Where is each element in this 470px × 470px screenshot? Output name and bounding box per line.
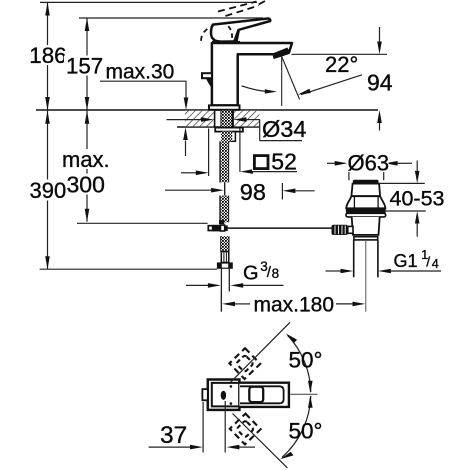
deck hatching right of faucet <box>240 111 260 127</box>
drain pop-up lever knob <box>332 225 348 235</box>
svg-text:50°: 50° <box>289 419 323 444</box>
svg-text:94: 94 <box>367 70 393 96</box>
svg-text:4: 4 <box>432 257 439 271</box>
backnut washer bar <box>215 128 243 132</box>
counter deck bottom line <box>177 126 259 128</box>
svg-text:max.180: max.180 <box>254 293 335 316</box>
drain flange black band <box>346 208 386 213</box>
dimension G3/8 arrows <box>186 284 209 286</box>
dimension 390 vertical line <box>47 111 49 269</box>
drain flange lip <box>346 213 386 217</box>
svg-text:50°: 50° <box>289 348 323 373</box>
wire: extension line handle tip (157 ref) <box>79 17 263 19</box>
counter deck top line <box>36 109 378 111</box>
svg-text:/: / <box>426 253 430 269</box>
drain collar <box>354 237 378 240</box>
22 degree label leader with arrow <box>301 75 362 95</box>
supply hose lower section <box>221 196 228 223</box>
shank threaded section below nut <box>221 132 232 142</box>
label diam63 <box>347 155 389 172</box>
pop-up rod guide <box>230 132 236 142</box>
dashed handle rotated down position <box>230 414 261 445</box>
faucet base plate <box>209 105 240 109</box>
drain bell flare <box>346 196 385 208</box>
dimension G1 1/4 arrows <box>326 270 342 272</box>
dimension 94 <box>379 27 381 42</box>
svg-text:Ø34: Ø34 <box>262 116 306 142</box>
svg-text:300: 300 <box>67 171 105 197</box>
dimension max.300 vertical line <box>86 111 88 222</box>
label diam34 <box>261 119 303 140</box>
handle lever front view <box>211 19 270 42</box>
dimension 98 <box>165 189 212 191</box>
handle base contact line <box>212 41 240 44</box>
plan view: lever pad <box>249 387 263 403</box>
plan view: screw dots <box>230 385 233 388</box>
dashed handle rotated up position <box>229 348 260 379</box>
dimension max.180 <box>220 291 222 312</box>
dimension 157 vertical line <box>86 18 88 110</box>
G3/8 thread lines <box>220 269 222 312</box>
dimension arrows diam34 <box>167 119 203 121</box>
drain cap body <box>351 184 380 197</box>
drain tailpipe G1 1/4 <box>353 240 355 277</box>
upper 50 degree arc <box>288 335 311 392</box>
svg-text:37: 37 <box>160 422 187 449</box>
svg-text:8: 8 <box>272 266 280 281</box>
hole edge lines in deck <box>214 111 216 127</box>
dimension diam63 <box>327 162 335 164</box>
lower 50 degree arc <box>282 396 311 457</box>
dimension 40-53 <box>416 161 418 172</box>
svg-text:max.: max. <box>62 147 110 172</box>
plan view: centerline stub <box>290 393 317 395</box>
label square52 <box>252 153 296 171</box>
dashed handle swing arc left <box>201 26 214 41</box>
plan view: handle lever <box>239 383 289 407</box>
plan view: base square <box>208 380 240 410</box>
pop-up rod visible in hose break <box>224 182 226 195</box>
dimension square52 extension lines <box>208 129 210 177</box>
plan view: lever face inset <box>240 386 284 403</box>
svg-text:G1: G1 <box>394 251 418 271</box>
supply hose upper section <box>221 141 228 182</box>
plan view: body inner lines <box>212 383 240 407</box>
svg-text:G: G <box>243 263 259 285</box>
hose threaded end section <box>221 236 229 251</box>
aerator at spout tip <box>273 48 290 58</box>
wire: 390 bottom reference line <box>40 268 218 270</box>
G3/8 connection nut <box>217 262 233 268</box>
svg-text:98: 98 <box>240 179 266 205</box>
label 157 <box>64 56 106 76</box>
dashed handle swing arc inside knob <box>228 26 232 38</box>
pop-up rod wedge <box>206 78 212 88</box>
upper 50 degree radial line <box>231 322 291 382</box>
deck hatching slivers beside hole <box>209 111 215 127</box>
svg-text:max.30: max.30 <box>106 61 175 84</box>
svg-text:390: 390 <box>30 178 67 203</box>
pop-up horizontal rod to drain <box>224 227 332 229</box>
wire: max.300 bottom reference line <box>77 222 208 224</box>
deck hatching left of faucet <box>185 111 209 127</box>
hose end fitting <box>221 252 229 263</box>
dimension 37 <box>202 402 204 453</box>
dashed raised handle position <box>218 2 257 12</box>
pop-up rod connector block <box>213 225 220 232</box>
drain assembly: stopper cap <box>353 180 379 184</box>
svg-text:Ø63: Ø63 <box>348 150 390 175</box>
svg-text:22°: 22° <box>325 52 358 77</box>
pop-up rod knob behind faucet <box>202 73 212 78</box>
svg-text:157: 157 <box>66 54 103 79</box>
lower 50 degree radial line <box>233 414 288 468</box>
svg-text:52: 52 <box>271 149 297 175</box>
drain centerline <box>365 241 367 312</box>
wire: spout outlet level extension line <box>292 53 388 55</box>
dimension 186 vertical line <box>47 2 49 110</box>
label max. 300 <box>60 149 110 169</box>
plan view: spout outlet blob <box>221 391 226 400</box>
threaded shank through deck <box>221 111 232 128</box>
handle crease line <box>234 29 238 41</box>
22 degree sweep arc with arrow <box>242 86 270 92</box>
faucet body and spout outline <box>212 43 292 105</box>
drain neck <box>352 217 380 235</box>
22 degree vertical reference line <box>281 57 283 107</box>
svg-text:40-53: 40-53 <box>390 187 445 211</box>
22 degree slanted stream line <box>282 57 300 100</box>
wire: extension line top of raised handle (186 ref) <box>40 1 257 3</box>
dimension max.30 leader and arrows <box>100 80 187 82</box>
svg-text:186: 186 <box>29 43 66 68</box>
label 186 <box>28 45 71 65</box>
plan view: spout stub <box>202 389 207 400</box>
label 390 <box>28 180 66 201</box>
drain lever stub <box>348 226 353 233</box>
dimension square52 arrows <box>181 172 197 174</box>
